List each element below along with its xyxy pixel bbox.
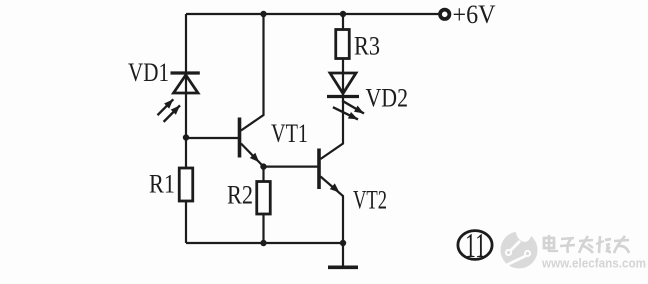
svg-text:VT2: VT2 <box>353 186 387 215</box>
svg-text:VT1: VT1 <box>271 119 308 148</box>
svg-text:www.elecfans.com: www.elecfans.com <box>541 256 646 271</box>
svg-text:R1: R1 <box>149 170 175 199</box>
svg-text:11: 11 <box>465 226 486 265</box>
svg-text:+6V: +6V <box>453 0 496 29</box>
svg-text:R2: R2 <box>227 181 253 210</box>
svg-text:VD1: VD1 <box>128 58 169 87</box>
svg-text:VD2: VD2 <box>366 84 409 113</box>
svg-text:R3: R3 <box>354 32 380 61</box>
